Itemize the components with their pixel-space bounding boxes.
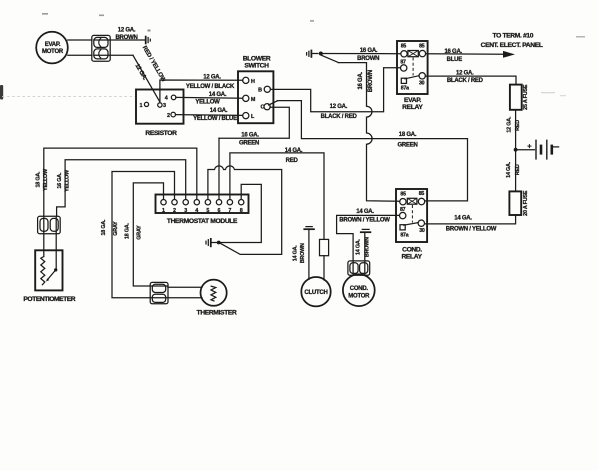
wire 12 GA. BROWN to ground bbox=[110, 28, 145, 41]
svg-text:14 GA.: 14 GA. bbox=[355, 238, 361, 255]
svg-text:THERMISTER: THERMISTER bbox=[197, 310, 237, 317]
connector J4 (thermister connector) bbox=[150, 282, 168, 303]
ground (right-facing chassis ground at evap motor brown lead) bbox=[146, 36, 151, 45]
svg-text:85: 85 bbox=[401, 44, 407, 50]
svg-text:THERMOSTAT MODULE: THERMOSTAT MODULE bbox=[167, 218, 238, 225]
wire 14 GA. BROWN/YELLOW 20A fuse to cond relay 30 bbox=[425, 215, 516, 233]
svg-text:TO TERM. #10: TO TERM. #10 bbox=[492, 32, 533, 39]
wire 12 GA. RED/YELLOW diagonal to resistor pin 3 bbox=[110, 45, 166, 101]
svg-text:POTENTIOMETER: POTENTIOMETER bbox=[23, 296, 75, 303]
svg-text:85: 85 bbox=[419, 43, 425, 49]
svg-text:CLUTCH: CLUTCH bbox=[304, 290, 327, 296]
svg-text:5: 5 bbox=[206, 208, 209, 214]
wire evap motor to connector (two leads) bbox=[68, 40, 92, 55]
wire 12 GA. RED fuse to battery junction bbox=[506, 110, 521, 150]
svg-text:2: 2 bbox=[167, 113, 170, 119]
wire module pin 5 to ground junction (hops pin6/pin7 risers) bbox=[208, 166, 282, 255]
thermister RT1 bbox=[197, 280, 237, 317]
wire 16 GA. YELLOW module pin 3 to potentiometer wiper bbox=[57, 160, 186, 217]
svg-text:BROWN: BROWN bbox=[115, 35, 137, 41]
wire 16 GA. BLUE evap relay 85 to cent. elect. panel (arrow) bbox=[426, 32, 543, 63]
svg-text:MOTOR: MOTOR bbox=[348, 294, 370, 300]
cond relay K2 bbox=[396, 189, 427, 261]
svg-text:25 A FUSE: 25 A FUSE bbox=[523, 84, 529, 110]
svg-text:30: 30 bbox=[419, 81, 425, 87]
svg-text:16 GA.: 16 GA. bbox=[360, 48, 378, 54]
wire 16 GA. GREEN blower C to thermostat module pin 6 bbox=[219, 107, 289, 147]
svg-text:CENT. ELECT. PANEL: CENT. ELECT. PANEL bbox=[481, 42, 543, 49]
svg-text:YELLOW: YELLOW bbox=[195, 100, 220, 106]
svg-text:14 GA.: 14 GA. bbox=[356, 209, 374, 215]
blower switch C blade contact bbox=[269, 101, 278, 105]
svg-text:16 GA.: 16 GA. bbox=[358, 71, 364, 89]
wire 18 GA. GRAY module pin 2 to thermister connector (outer loop) bbox=[101, 172, 175, 298]
ground (clutch lead, bars above stem) bbox=[303, 227, 314, 280]
svg-text:YELLOW / BLUE: YELLOW / BLUE bbox=[193, 116, 237, 122]
wire 14 GA. YELLOW resistor pin4 to blower M bbox=[176, 92, 243, 105]
svg-text:YELLOW / BLACK: YELLOW / BLACK bbox=[186, 84, 235, 90]
svg-text:12 GA.: 12 GA. bbox=[330, 104, 348, 110]
svg-text:16 GA.: 16 GA. bbox=[57, 172, 63, 189]
svg-text:RED: RED bbox=[515, 164, 521, 175]
svg-text:GREEN: GREEN bbox=[397, 143, 417, 149]
svg-text:BROWN: BROWN bbox=[368, 70, 374, 92]
thermostat module U1 bbox=[156, 195, 249, 225]
node battery junction dot bbox=[514, 148, 518, 152]
wire 16 GA. BROWN switch blade down to cond relay 85 (left pin), hops two horizontals bbox=[321, 55, 399, 201]
wire labels 14 GA. BROWN cond motor bbox=[355, 237, 370, 257]
wire 18 GA. GRAY module pin 1 to thermister connector (inner loop) bbox=[124, 183, 163, 286]
connector J3 (cond motor connector) bbox=[348, 261, 370, 275]
svg-text:C: C bbox=[260, 105, 264, 111]
svg-text:6: 6 bbox=[218, 208, 221, 214]
ground (left-facing, at top feed junction) bbox=[307, 50, 318, 58]
svg-text:12 GA.: 12 GA. bbox=[506, 116, 512, 133]
svg-text:12 GA.: 12 GA. bbox=[456, 71, 474, 77]
svg-text:12 GA.: 12 GA. bbox=[118, 28, 136, 34]
svg-text:BROWN / YELLOW: BROWN / YELLOW bbox=[339, 218, 390, 224]
wire 18 GA. GREEN blower C blade to cond relay 85 (right pin) bbox=[277, 101, 467, 201]
svg-text:1: 1 bbox=[139, 103, 142, 109]
ground (left-facing, thermostat module pins 5 and 8) bbox=[206, 238, 219, 247]
wire 18 GA. YELLOW module pin 4 to potentiometer bbox=[36, 148, 197, 216]
wire thermister connector to thermister bbox=[168, 287, 202, 298]
svg-text:BLACK / RED: BLACK / RED bbox=[447, 78, 484, 84]
svg-text:12 GA.: 12 GA. bbox=[203, 75, 221, 81]
ground (cond motor lead, bars above stem) bbox=[360, 229, 371, 261]
svg-text:1: 1 bbox=[162, 208, 165, 214]
svg-text:3: 3 bbox=[163, 103, 166, 109]
fuse F3 (clutch thermal fuse) bbox=[320, 239, 329, 280]
svg-text:BLOWER: BLOWER bbox=[243, 55, 271, 62]
scan artifact smudge left edge bbox=[0, 13, 585, 100]
svg-text:4: 4 bbox=[195, 208, 198, 214]
svg-text:87a: 87a bbox=[400, 232, 408, 238]
connector J2 (potentiometer connector) bbox=[38, 216, 61, 233]
svg-text:2: 2 bbox=[173, 208, 176, 214]
svg-text:B: B bbox=[258, 87, 262, 93]
svg-text:YELLOW: YELLOW bbox=[43, 168, 49, 191]
svg-text:COND.: COND. bbox=[350, 286, 369, 292]
wire 14 GA. RED junction to 20A fuse bbox=[506, 150, 521, 192]
svg-text:14 GA.: 14 GA. bbox=[210, 108, 228, 114]
svg-text:GRAY: GRAY bbox=[136, 225, 142, 240]
wire 12 GA. BLACK/RED blower B to evap relay 87 (hops 16GA brown vertical) bbox=[270, 68, 400, 120]
svg-text:BROWN: BROWN bbox=[300, 243, 306, 263]
svg-text:18 GA.: 18 GA. bbox=[399, 132, 417, 138]
svg-text:H: H bbox=[251, 79, 255, 85]
svg-text:RELAY: RELAY bbox=[402, 104, 423, 111]
connector J1 (evap motor bulkhead connector) bbox=[92, 35, 110, 61]
resistor R1 (blower resistor block) bbox=[136, 90, 184, 137]
svg-text:RED: RED bbox=[515, 120, 521, 131]
wire 14 GA. YELLOW/BLUE resistor pin2 to blower L bbox=[176, 108, 243, 122]
svg-text:GRAY: GRAY bbox=[113, 221, 119, 236]
svg-text:MOTOR: MOTOR bbox=[42, 49, 64, 55]
svg-text:BLACK / RED: BLACK / RED bbox=[321, 114, 358, 120]
svg-text:20 A FUSE: 20 A FUSE bbox=[523, 190, 529, 216]
svg-text:4: 4 bbox=[165, 95, 168, 101]
svg-text:COND.: COND. bbox=[402, 247, 422, 254]
svg-text:M: M bbox=[251, 97, 256, 103]
svg-text:14 GA.: 14 GA. bbox=[209, 92, 227, 98]
svg-text:18 GA.: 18 GA. bbox=[36, 171, 42, 188]
evap motor M1 bbox=[36, 32, 68, 64]
svg-text:EVAP.: EVAP. bbox=[45, 42, 61, 48]
svg-text:8: 8 bbox=[240, 208, 243, 214]
cond motor M2 bbox=[343, 274, 375, 306]
svg-text:RED: RED bbox=[286, 158, 299, 164]
svg-text:GREEN: GREEN bbox=[239, 141, 259, 147]
wire module pin 8 to ground junction bbox=[221, 184, 262, 242]
blower switch S1 bbox=[238, 55, 273, 123]
svg-text:RELAY: RELAY bbox=[401, 254, 422, 261]
wire labels 14 GA. BROWN clutch bbox=[292, 243, 306, 263]
svg-text:14 GA.: 14 GA. bbox=[285, 148, 303, 154]
battery BT1 bbox=[516, 140, 559, 160]
svg-text:16 GA.: 16 GA. bbox=[241, 133, 259, 139]
svg-text:14 GA.: 14 GA. bbox=[506, 161, 512, 178]
svg-text:18 GA.: 18 GA. bbox=[124, 223, 130, 240]
svg-text:16 GA.: 16 GA. bbox=[444, 49, 462, 55]
svg-text:85: 85 bbox=[400, 192, 406, 198]
wire 14 GA. RED module pin 7 to clutch fuse bbox=[230, 148, 324, 240]
svg-text:85: 85 bbox=[419, 191, 425, 197]
svg-text:YELLOW: YELLOW bbox=[64, 169, 70, 192]
svg-text:18 GA.: 18 GA. bbox=[101, 219, 107, 236]
svg-text:14 GA.: 14 GA. bbox=[454, 216, 472, 222]
svg-text:+: + bbox=[527, 141, 532, 150]
fuse F2 20 A FUSE bbox=[509, 190, 529, 216]
wire 16 GA. BROWN junction to evap relay 85 (left pin) bbox=[321, 48, 401, 62]
svg-text:30: 30 bbox=[419, 228, 425, 234]
evap relay K1 bbox=[397, 41, 428, 111]
wire 12 GA. BLACK/RED evap relay 30 to 25A fuse bbox=[425, 71, 516, 85]
svg-text:RESISTOR: RESISTOR bbox=[145, 130, 177, 137]
svg-text:BLUE: BLUE bbox=[447, 57, 463, 63]
fuse F1 25 A FUSE bbox=[510, 84, 529, 110]
node thermostat ground junction dot bbox=[217, 241, 221, 245]
svg-text:BROWN / YELLOW: BROWN / YELLOW bbox=[446, 227, 497, 233]
svg-text:BROWN: BROWN bbox=[357, 56, 379, 62]
clutch L1 bbox=[301, 277, 330, 306]
svg-text:3: 3 bbox=[184, 208, 187, 214]
wire 12 GA. YELLOW/BLACK resistor pin3 riser to blower H bbox=[160, 75, 243, 103]
svg-text:SWITCH: SWITCH bbox=[244, 63, 269, 70]
wire 14 GA. BROWN/YELLOW cond relay 87 to cond motor connector bbox=[337, 209, 400, 261]
svg-text:87a: 87a bbox=[401, 85, 409, 91]
node junction dot at top feed bbox=[319, 52, 323, 56]
svg-text:7: 7 bbox=[228, 208, 231, 214]
module pin 6 riser bbox=[218, 138, 220, 199]
potentiometer R2 bbox=[23, 234, 75, 303]
svg-text:14 GA.: 14 GA. bbox=[292, 245, 298, 262]
svg-text:BROWN: BROWN bbox=[365, 237, 371, 257]
